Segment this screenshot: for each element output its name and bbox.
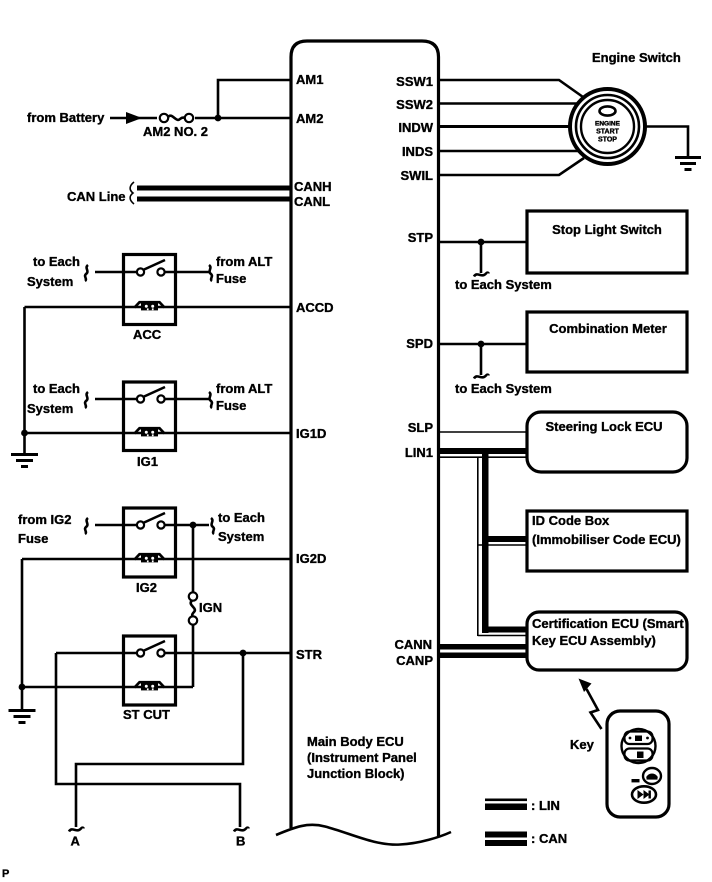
svg-text:Combination Meter: Combination Meter	[549, 321, 667, 336]
svg-text:STP: STP	[408, 230, 434, 245]
svg-text:INDW: INDW	[398, 120, 433, 135]
svg-text:System: System	[218, 529, 264, 544]
svg-text:CANH: CANH	[294, 179, 332, 194]
svg-text:ENGINE: ENGINE	[595, 121, 621, 128]
svg-text:P: P	[2, 868, 9, 880]
svg-text:ACCD: ACCD	[296, 300, 334, 315]
svg-text:AM2: AM2	[296, 111, 323, 126]
svg-text:SWIL: SWIL	[401, 168, 434, 183]
svg-text:LIN1: LIN1	[405, 445, 433, 460]
svg-text:Key ECU Assembly): Key ECU Assembly)	[532, 633, 656, 648]
svg-text:CANL: CANL	[294, 194, 330, 209]
svg-text:Fuse: Fuse	[216, 398, 246, 413]
svg-text:Fuse: Fuse	[18, 531, 48, 546]
svg-text:AM2 NO. 2: AM2 NO. 2	[143, 124, 208, 139]
svg-text:IG1: IG1	[137, 454, 158, 469]
svg-text:INDS: INDS	[402, 144, 433, 159]
svg-text:from ALT: from ALT	[216, 381, 272, 396]
svg-text:A: A	[71, 834, 81, 849]
svg-text:Engine Switch: Engine Switch	[592, 50, 681, 65]
svg-text:B: B	[236, 834, 245, 849]
svg-text:IG1D: IG1D	[296, 426, 326, 441]
svg-text:AM1: AM1	[296, 72, 323, 87]
svg-text:ID Code Box: ID Code Box	[532, 513, 610, 528]
svg-text:ST CUT: ST CUT	[123, 707, 170, 722]
svg-text:Main Body ECU: Main Body ECU	[307, 734, 404, 749]
svg-text:to Each: to Each	[218, 510, 265, 525]
svg-text:to Each System: to Each System	[455, 381, 552, 396]
svg-text:: LIN: : LIN	[531, 798, 560, 813]
svg-text:SPD: SPD	[406, 336, 433, 351]
svg-text:STOP: STOP	[598, 137, 617, 144]
svg-text:IG2D: IG2D	[296, 551, 326, 566]
svg-text:Steering Lock ECU: Steering Lock ECU	[545, 419, 662, 434]
svg-text:: CAN: : CAN	[531, 831, 567, 846]
svg-text:from Battery: from Battery	[27, 110, 105, 125]
svg-text:SLP: SLP	[408, 420, 434, 435]
svg-text:Stop Light Switch: Stop Light Switch	[552, 222, 662, 237]
svg-text:from ALT: from ALT	[216, 254, 272, 269]
svg-text:SSW2: SSW2	[396, 97, 433, 112]
svg-text:System: System	[27, 274, 73, 289]
svg-text:Junction Block): Junction Block)	[307, 766, 405, 781]
svg-text:CAN Line: CAN Line	[67, 189, 126, 204]
svg-text:Key: Key	[570, 737, 595, 752]
svg-text:IG2: IG2	[136, 580, 157, 595]
svg-text:to Each: to Each	[33, 254, 80, 269]
svg-text:System: System	[27, 401, 73, 416]
svg-text:to Each: to Each	[33, 381, 80, 396]
svg-text:(Instrument Panel: (Instrument Panel	[307, 750, 417, 765]
svg-text:to Each System: to Each System	[455, 277, 552, 292]
svg-text:(Immobiliser Code ECU): (Immobiliser Code ECU)	[532, 532, 681, 547]
svg-text:CANN: CANN	[394, 637, 432, 652]
svg-text:START: START	[596, 129, 620, 136]
svg-text:IGN: IGN	[199, 600, 222, 615]
svg-text:STR: STR	[296, 647, 323, 662]
svg-text:ACC: ACC	[133, 327, 162, 342]
svg-text:Certification ECU (Smart: Certification ECU (Smart	[532, 616, 684, 631]
svg-text:Fuse: Fuse	[216, 271, 246, 286]
svg-text:SSW1: SSW1	[396, 74, 433, 89]
svg-text:from IG2: from IG2	[18, 512, 71, 527]
svg-text:CANP: CANP	[396, 653, 433, 668]
